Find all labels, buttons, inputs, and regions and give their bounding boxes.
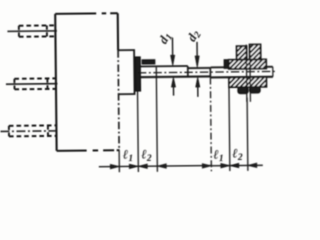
extension line hub split xyxy=(246,98,249,171)
extension line right shaft end (dash-dot) xyxy=(209,67,211,77)
d2 dimension arrows xyxy=(196,42,199,97)
shaft d1 section outline xyxy=(140,65,187,67)
bearing housing box xyxy=(118,50,134,94)
key on right shaft xyxy=(224,60,237,69)
svg-text:ℓ2: ℓ2 xyxy=(232,145,243,163)
extension line motor face xyxy=(118,150,120,172)
hub upper tooth right xyxy=(250,44,261,59)
centerline (dash-dot axis) xyxy=(138,71,276,72)
hub split lines xyxy=(246,45,250,102)
motor body rectangle xyxy=(55,12,117,15)
key on motor shaft xyxy=(142,60,155,64)
svg-text:ℓ2: ℓ2 xyxy=(141,146,152,164)
extension line keyway end (crosses shaft) xyxy=(156,67,157,172)
dimension line right group xyxy=(211,164,262,167)
shaft end face right xyxy=(272,67,274,77)
hub lower base (hatched) xyxy=(229,77,267,87)
hub lower tooth right xyxy=(250,87,260,93)
motor right edge lower (dash-dot) xyxy=(118,50,119,150)
hub lower tooth left xyxy=(238,87,248,93)
hub upper base (hatched) xyxy=(229,59,267,69)
svg-text:ℓ1: ℓ1 xyxy=(213,147,223,165)
lead wire 2 xyxy=(6,83,57,86)
svg-text:d2: d2 xyxy=(184,27,203,45)
step d1/d2 xyxy=(187,66,189,77)
arrowheads left group xyxy=(110,164,119,169)
lead wire 1 xyxy=(7,30,56,33)
shaft d2 section outline xyxy=(188,67,211,69)
extension line flange face xyxy=(137,91,140,172)
dimension line left group xyxy=(99,166,211,167)
terminal box 3 (bottom, dashed) xyxy=(9,124,56,126)
terminal box 2 (middle, dashed) xyxy=(14,77,55,79)
arrowheads right group xyxy=(202,164,211,169)
hub upper tooth left xyxy=(237,46,247,60)
extension line hub left face xyxy=(228,87,231,171)
lead wire 3 (dash-dot) xyxy=(0,130,58,133)
flange bar xyxy=(135,57,140,91)
terminal box 1 (top, dashed) xyxy=(19,24,55,26)
right machine shaft outline xyxy=(211,66,273,69)
svg-text:ℓ1: ℓ1 xyxy=(123,147,133,165)
d1 dimension arrows xyxy=(172,38,173,96)
